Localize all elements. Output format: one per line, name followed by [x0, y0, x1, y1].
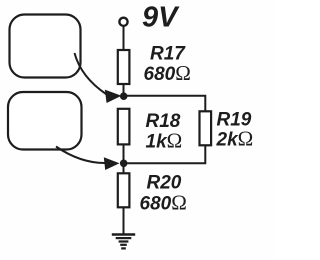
svg-text:680Ω: 680Ω [144, 61, 191, 85]
callout arrow 2 [56, 147, 120, 171]
node A junction dot [120, 92, 128, 100]
wire: node A to R19 branch (horizontal) [124, 96, 206, 112]
svg-text:2kΩ: 2kΩ [216, 127, 254, 151]
svg-text:1kΩ: 1kΩ [146, 129, 183, 153]
callout box 2 (blank annotation) [8, 92, 82, 150]
ground symbol [112, 235, 135, 249]
resistor R19 [200, 111, 212, 145]
callout arrow 1 [75, 53, 122, 103]
node B junction dot [120, 160, 128, 168]
9V supply terminal [119, 18, 127, 26]
resistor R20 [118, 173, 130, 207]
svg-text:9V: 9V [142, 2, 180, 34]
wire: R18 to node B [123, 144, 125, 163]
resistor R18 [118, 109, 130, 145]
svg-text:680Ω: 680Ω [140, 191, 187, 215]
wire: R19 to node B (horizontal) [124, 145, 206, 163]
callout box 1 (blank annotation) [10, 15, 81, 78]
wire: terminal to R17 [123, 26, 125, 51]
wire: R20 to ground [123, 207, 125, 234]
wire: node B to R20 [123, 163, 125, 174]
wire: R17 to node A [123, 84, 125, 96]
resistor R17 [118, 50, 130, 84]
